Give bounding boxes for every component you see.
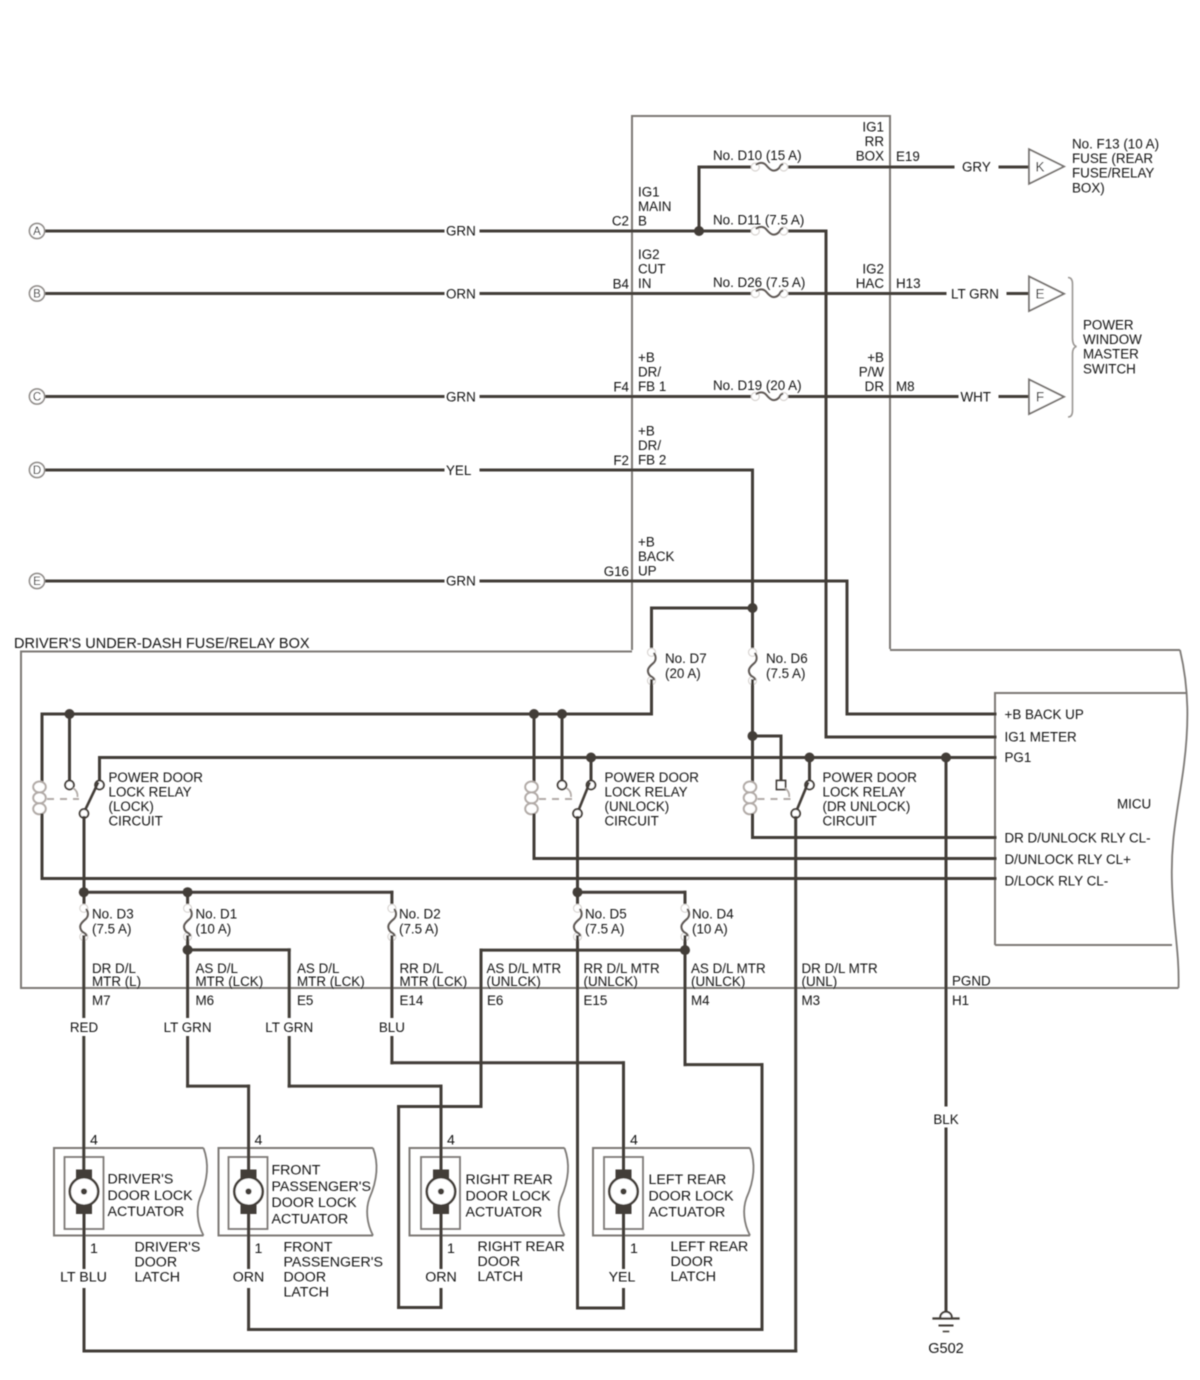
svg-text:MTR (LCK): MTR (LCK) xyxy=(400,974,468,989)
svg-text:IG1 METER: IG1 METER xyxy=(1005,730,1078,745)
svg-text:HAC: HAC xyxy=(856,276,885,291)
svg-text:No. D4: No. D4 xyxy=(692,907,734,922)
svg-text:POWER DOOR: POWER DOOR xyxy=(109,770,204,785)
svg-text:PG1: PG1 xyxy=(1005,750,1032,765)
svg-text:No. F13 (10 A): No. F13 (10 A) xyxy=(1072,137,1159,152)
svg-text:GRN: GRN xyxy=(446,390,476,405)
svg-text:F4: F4 xyxy=(613,380,629,395)
svg-text:DRIVER'S: DRIVER'S xyxy=(135,1240,201,1256)
svg-text:WHT: WHT xyxy=(961,390,992,405)
svg-text:MAIN: MAIN xyxy=(638,199,671,214)
svg-text:DR/: DR/ xyxy=(638,365,661,380)
svg-text:LATCH: LATCH xyxy=(478,1269,523,1285)
svg-text:MTR (L): MTR (L) xyxy=(92,974,141,989)
svg-text:MTR (LCK): MTR (LCK) xyxy=(196,974,264,989)
svg-text:(UNLOCK): (UNLOCK) xyxy=(605,799,670,814)
svg-text:+B: +B xyxy=(867,350,884,365)
svg-text:DRIVER'S: DRIVER'S xyxy=(108,1172,174,1188)
svg-text:LT GRN: LT GRN xyxy=(164,1020,212,1035)
svg-text:E19: E19 xyxy=(896,149,920,164)
svg-text:(DR UNLOCK): (DR UNLOCK) xyxy=(823,799,911,814)
svg-text:+B BACK UP: +B BACK UP xyxy=(1005,707,1084,722)
svg-text:(UNLCK): (UNLCK) xyxy=(584,974,638,989)
svg-text:LT BLU: LT BLU xyxy=(60,1270,107,1286)
svg-text:E: E xyxy=(33,576,41,588)
svg-text:(7.5 A): (7.5 A) xyxy=(585,922,624,937)
svg-text:GRY: GRY xyxy=(962,160,991,175)
svg-text:FRONT: FRONT xyxy=(284,1240,333,1256)
svg-text:B4: B4 xyxy=(613,277,630,292)
svg-text:DOOR: DOOR xyxy=(135,1255,178,1271)
svg-text:M4: M4 xyxy=(691,993,710,1008)
svg-text:LT GRN: LT GRN xyxy=(951,287,999,302)
svg-text:F: F xyxy=(1036,390,1044,405)
svg-text:No. D6: No. D6 xyxy=(766,651,808,666)
svg-text:DOOR: DOOR xyxy=(478,1254,521,1270)
svg-text:B: B xyxy=(638,214,647,229)
svg-text:(20 A): (20 A) xyxy=(665,666,701,681)
svg-text:RR: RR xyxy=(865,134,885,149)
svg-text:CIRCUIT: CIRCUIT xyxy=(605,814,659,829)
svg-text:1: 1 xyxy=(90,1241,98,1257)
svg-text:M7: M7 xyxy=(92,993,111,1008)
svg-text:E5: E5 xyxy=(297,993,313,1008)
svg-text:No. D7: No. D7 xyxy=(665,651,707,666)
svg-text:BACK: BACK xyxy=(638,549,675,564)
svg-text:POWER DOOR: POWER DOOR xyxy=(823,770,918,785)
svg-text:No. D5: No. D5 xyxy=(585,907,627,922)
svg-text:BLU: BLU xyxy=(379,1020,405,1035)
svg-text:DOOR: DOOR xyxy=(671,1254,714,1270)
svg-text:ACTUATOR: ACTUATOR xyxy=(108,1204,185,1220)
svg-text:POWER: POWER xyxy=(1083,318,1134,333)
svg-text:PASSENGER'S: PASSENGER'S xyxy=(272,1179,371,1195)
svg-text:D/UNLOCK RLY CL+: D/UNLOCK RLY CL+ xyxy=(1005,852,1132,867)
svg-text:No. D3: No. D3 xyxy=(92,907,134,922)
svg-text:DRIVER'S UNDER-DASH FUSE/RELAY: DRIVER'S UNDER-DASH FUSE/RELAY BOX xyxy=(14,636,310,652)
svg-text:LATCH: LATCH xyxy=(135,1270,180,1286)
svg-text:ACTUATOR: ACTUATOR xyxy=(272,1211,349,1227)
svg-text:M6: M6 xyxy=(196,993,215,1008)
svg-text:ACTUATOR: ACTUATOR xyxy=(466,1205,543,1221)
svg-text:BOX: BOX xyxy=(856,149,884,164)
svg-text:FB 1: FB 1 xyxy=(638,379,666,394)
svg-text:1: 1 xyxy=(255,1241,263,1257)
svg-text:+B: +B xyxy=(638,535,655,550)
svg-text:FRONT: FRONT xyxy=(272,1163,321,1179)
svg-text:ORN: ORN xyxy=(446,287,476,302)
svg-text:4: 4 xyxy=(90,1132,98,1148)
svg-text:FUSE/RELAY: FUSE/RELAY xyxy=(1072,166,1154,181)
svg-text:RIGHT REAR: RIGHT REAR xyxy=(466,1172,553,1188)
svg-text:FB 2: FB 2 xyxy=(638,453,666,468)
svg-text:1: 1 xyxy=(630,1241,638,1257)
svg-text:C2: C2 xyxy=(612,214,629,229)
svg-text:P/W: P/W xyxy=(859,365,885,380)
svg-text:H13: H13 xyxy=(896,276,921,291)
svg-text:G16: G16 xyxy=(604,564,629,579)
svg-text:G502: G502 xyxy=(928,1341,963,1357)
svg-text:WINDOW: WINDOW xyxy=(1083,332,1142,347)
svg-text:CIRCUIT: CIRCUIT xyxy=(823,814,877,829)
svg-text:LATCH: LATCH xyxy=(284,1285,329,1301)
svg-text:ORN: ORN xyxy=(425,1270,457,1286)
svg-text:BLK: BLK xyxy=(933,1112,958,1127)
svg-text:(UNLCK): (UNLCK) xyxy=(487,974,541,989)
svg-text:4: 4 xyxy=(630,1132,638,1148)
svg-text:LOCK RELAY: LOCK RELAY xyxy=(823,785,906,800)
svg-text:LEFT REAR: LEFT REAR xyxy=(649,1172,727,1188)
svg-text:+B: +B xyxy=(638,350,655,365)
svg-text:GRN: GRN xyxy=(446,574,476,589)
svg-text:A: A xyxy=(33,226,41,238)
svg-text:LATCH: LATCH xyxy=(671,1269,716,1285)
svg-text:(7.5 A): (7.5 A) xyxy=(399,922,438,937)
svg-text:LT GRN: LT GRN xyxy=(265,1020,313,1035)
svg-text:(UNLCK): (UNLCK) xyxy=(691,974,745,989)
svg-text:RIGHT REAR: RIGHT REAR xyxy=(478,1239,565,1255)
svg-text:B: B xyxy=(33,289,41,301)
svg-text:MICU: MICU xyxy=(1117,797,1151,812)
svg-text:K: K xyxy=(1035,159,1044,174)
svg-text:IG2: IG2 xyxy=(638,247,660,262)
svg-text:(10 A): (10 A) xyxy=(196,922,232,937)
svg-text:DOOR LOCK: DOOR LOCK xyxy=(649,1188,735,1204)
svg-text:SWITCH: SWITCH xyxy=(1083,361,1136,376)
svg-text:E: E xyxy=(1035,287,1044,302)
svg-text:DOOR LOCK: DOOR LOCK xyxy=(108,1188,194,1204)
svg-text:4: 4 xyxy=(255,1132,263,1148)
svg-text:No. D2: No. D2 xyxy=(399,907,441,922)
svg-text:GRN: GRN xyxy=(446,224,476,239)
svg-text:No. D26 (7.5 A): No. D26 (7.5 A) xyxy=(713,275,805,290)
svg-text:C: C xyxy=(33,392,41,404)
svg-text:(LOCK): (LOCK) xyxy=(109,799,154,814)
svg-text:1: 1 xyxy=(447,1241,455,1257)
svg-text:M8: M8 xyxy=(896,379,915,394)
svg-text:DOOR: DOOR xyxy=(284,1270,327,1286)
svg-text:YEL: YEL xyxy=(446,463,471,478)
svg-text:DR: DR xyxy=(865,379,885,394)
svg-text:H1: H1 xyxy=(952,993,969,1008)
svg-text:DOOR LOCK: DOOR LOCK xyxy=(272,1195,358,1211)
svg-text:M3: M3 xyxy=(802,993,821,1008)
svg-text:UP: UP xyxy=(638,564,657,579)
svg-text:DOOR LOCK: DOOR LOCK xyxy=(466,1188,552,1204)
svg-text:D/LOCK RLY CL-: D/LOCK RLY CL- xyxy=(1005,874,1109,889)
svg-text:(UNL): (UNL) xyxy=(802,974,838,989)
svg-text:+B: +B xyxy=(638,424,655,439)
svg-text:PASSENGER'S: PASSENGER'S xyxy=(284,1255,383,1271)
svg-text:E15: E15 xyxy=(584,993,608,1008)
svg-text:DR/: DR/ xyxy=(638,438,661,453)
svg-text:E6: E6 xyxy=(487,993,503,1008)
svg-text:IN: IN xyxy=(638,276,651,291)
svg-text:(10 A): (10 A) xyxy=(692,922,728,937)
svg-text:CIRCUIT: CIRCUIT xyxy=(109,814,163,829)
svg-text:IG1: IG1 xyxy=(638,185,660,200)
svg-text:No. D11 (7.5 A): No. D11 (7.5 A) xyxy=(713,213,804,228)
svg-text:CUT: CUT xyxy=(638,262,666,277)
svg-text:F2: F2 xyxy=(613,453,629,468)
svg-text:No. D1: No. D1 xyxy=(196,907,238,922)
svg-text:LOCK RELAY: LOCK RELAY xyxy=(109,785,192,800)
svg-text:ACTUATOR: ACTUATOR xyxy=(649,1205,726,1221)
svg-text:LEFT REAR: LEFT REAR xyxy=(671,1239,749,1255)
svg-text:DR D/UNLOCK RLY CL-: DR D/UNLOCK RLY CL- xyxy=(1005,831,1151,846)
svg-text:No. D10 (15 A): No. D10 (15 A) xyxy=(713,148,802,163)
svg-text:E14: E14 xyxy=(400,993,424,1008)
svg-text:MASTER: MASTER xyxy=(1083,347,1139,362)
svg-text:POWER DOOR: POWER DOOR xyxy=(605,770,700,785)
svg-text:No. D19 (20 A): No. D19 (20 A) xyxy=(713,378,802,393)
svg-text:D: D xyxy=(33,465,41,477)
svg-text:PGND: PGND xyxy=(952,974,991,989)
svg-text:BOX): BOX) xyxy=(1072,180,1105,195)
svg-text:LOCK RELAY: LOCK RELAY xyxy=(605,785,688,800)
svg-text:MTR (LCK): MTR (LCK) xyxy=(297,974,365,989)
svg-text:YEL: YEL xyxy=(609,1270,636,1286)
svg-text:RED: RED xyxy=(70,1020,99,1035)
svg-text:FUSE (REAR: FUSE (REAR xyxy=(1072,151,1153,166)
svg-text:(7.5 A): (7.5 A) xyxy=(766,666,805,681)
svg-text:ORN: ORN xyxy=(233,1270,265,1286)
svg-text:4: 4 xyxy=(447,1132,455,1148)
svg-text:(7.5 A): (7.5 A) xyxy=(92,922,131,937)
svg-text:IG2: IG2 xyxy=(862,262,884,277)
svg-text:IG1: IG1 xyxy=(862,120,884,135)
